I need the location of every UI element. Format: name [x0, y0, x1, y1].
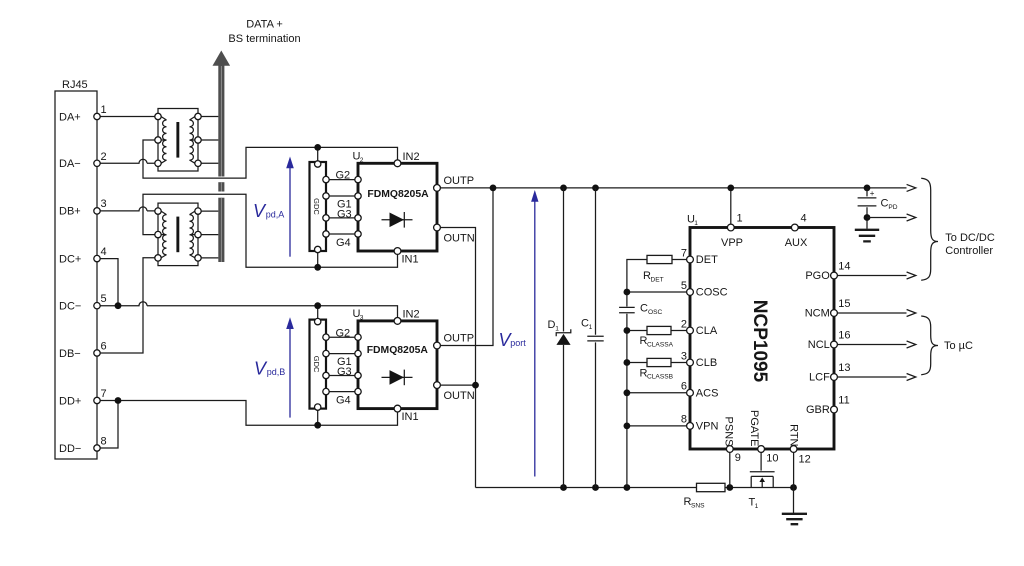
svg-text:5: 5: [681, 280, 687, 292]
svg-text:ACS: ACS: [696, 388, 719, 400]
svg-text:1: 1: [101, 104, 107, 116]
svg-text:CLASSA: CLASSA: [647, 341, 674, 348]
svg-text:GBR: GBR: [806, 404, 830, 416]
svg-text:1: 1: [694, 220, 698, 227]
svg-text:SNS: SNS: [691, 502, 705, 509]
svg-text:5: 5: [101, 293, 107, 305]
svg-text:IN1: IN1: [402, 254, 419, 266]
svg-text:DC+: DC+: [59, 253, 81, 265]
svg-text:GDC: GDC: [312, 198, 321, 215]
svg-text:2: 2: [101, 151, 107, 163]
svg-text:C: C: [640, 303, 648, 315]
svg-text:12: 12: [799, 454, 811, 466]
svg-text:14: 14: [838, 261, 850, 273]
svg-text:DC−: DC−: [59, 301, 81, 313]
svg-text:COSC: COSC: [696, 287, 728, 299]
svg-text:G2: G2: [336, 327, 351, 339]
svg-text:DATA +: DATA +: [246, 19, 283, 31]
svg-text:VPN: VPN: [696, 421, 719, 433]
svg-text:DB+: DB+: [59, 206, 81, 218]
svg-text:NCP1095: NCP1095: [749, 300, 770, 383]
svg-text:OUTN: OUTN: [444, 390, 475, 402]
svg-text:OSC: OSC: [648, 309, 663, 316]
svg-text:PGO: PGO: [805, 270, 830, 282]
svg-text:RJ45: RJ45: [62, 79, 88, 91]
svg-text:OUTP: OUTP: [444, 175, 475, 187]
svg-text:OUTN: OUTN: [444, 233, 475, 245]
svg-text:IN1: IN1: [402, 411, 419, 423]
svg-text:4: 4: [101, 246, 107, 258]
svg-text:DD−: DD−: [59, 443, 81, 455]
svg-text:CLB: CLB: [696, 357, 717, 369]
svg-text:8: 8: [681, 414, 687, 426]
svg-text:DET: DET: [651, 276, 664, 283]
svg-text:1: 1: [755, 503, 759, 510]
svg-text:NCM: NCM: [805, 308, 830, 320]
svg-text:IN2: IN2: [403, 309, 420, 321]
svg-text:DD+: DD+: [59, 395, 81, 407]
svg-text:RTN: RTN: [788, 424, 800, 446]
svg-text:Controller: Controller: [945, 245, 993, 257]
svg-text:3: 3: [101, 198, 107, 210]
svg-text:PD: PD: [888, 204, 897, 211]
svg-text:8: 8: [101, 436, 107, 448]
svg-text:To µC: To µC: [944, 340, 973, 352]
svg-text:13: 13: [838, 362, 850, 374]
svg-text:3: 3: [360, 314, 364, 321]
svg-text:OUTP: OUTP: [444, 333, 475, 345]
svg-text:IN2: IN2: [403, 151, 420, 163]
svg-text:pd,B: pd,B: [267, 367, 286, 377]
svg-text:D: D: [548, 319, 556, 331]
svg-text:DB−: DB−: [59, 348, 81, 360]
svg-text:2: 2: [681, 318, 687, 330]
svg-text:16: 16: [838, 330, 850, 342]
svg-text:2: 2: [360, 157, 364, 164]
svg-text:C: C: [881, 198, 889, 210]
svg-text:G3: G3: [337, 366, 352, 378]
svg-text:DA−: DA−: [59, 158, 81, 170]
svg-text:DA+: DA+: [59, 111, 81, 123]
svg-text:1: 1: [589, 324, 593, 331]
svg-text:15: 15: [838, 298, 850, 310]
svg-text:PGATE: PGATE: [748, 410, 760, 446]
svg-text:pd,A: pd,A: [266, 209, 285, 219]
svg-text:G4: G4: [336, 237, 351, 249]
svg-text:DET: DET: [696, 254, 718, 266]
svg-text:4: 4: [801, 213, 807, 225]
svg-text:port: port: [510, 338, 526, 348]
svg-text:6: 6: [101, 341, 107, 353]
svg-text:NCL: NCL: [808, 339, 830, 351]
svg-text:VPP: VPP: [721, 237, 743, 249]
svg-text:AUX: AUX: [785, 237, 808, 249]
svg-text:CLA: CLA: [696, 325, 718, 337]
svg-text:7: 7: [681, 247, 687, 259]
svg-text:6: 6: [681, 381, 687, 393]
svg-text:11: 11: [838, 395, 849, 407]
svg-text:1: 1: [555, 325, 559, 332]
svg-text:BS termination: BS termination: [228, 33, 300, 45]
svg-text:FDMQ8205A: FDMQ8205A: [367, 189, 429, 200]
svg-text:GDC: GDC: [312, 356, 321, 373]
svg-text:G4: G4: [336, 394, 351, 406]
svg-text:G2: G2: [336, 170, 351, 182]
svg-text:9: 9: [735, 452, 741, 464]
svg-text:LCF: LCF: [809, 372, 830, 384]
svg-text:To DC/DC: To DC/DC: [945, 232, 995, 244]
svg-text:1: 1: [737, 213, 743, 225]
svg-text:10: 10: [766, 453, 778, 465]
svg-text:3: 3: [681, 350, 687, 362]
svg-text:CLASSB: CLASSB: [647, 374, 674, 381]
svg-text:PSNS: PSNS: [723, 417, 735, 447]
svg-text:7: 7: [101, 388, 107, 400]
svg-text:+: +: [870, 189, 875, 198]
svg-text:FDMQ8205A: FDMQ8205A: [367, 345, 429, 356]
svg-text:G3: G3: [337, 208, 352, 220]
